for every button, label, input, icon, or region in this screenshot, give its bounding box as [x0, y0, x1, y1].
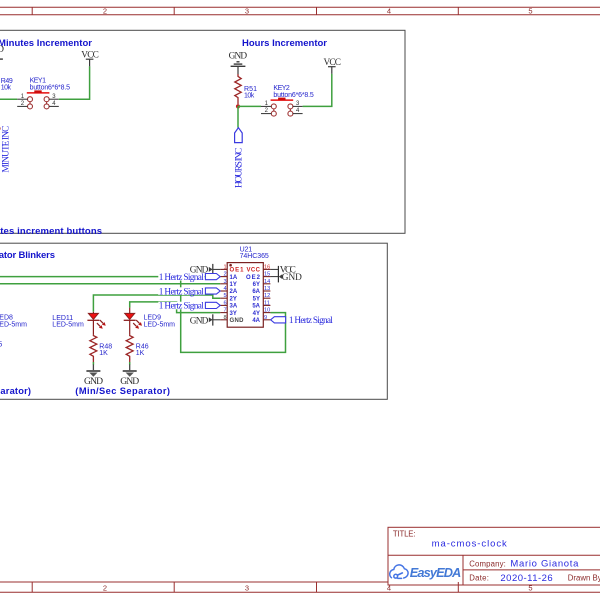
svg-text:1 Hertz Signal: 1 Hertz Signal	[159, 273, 204, 283]
svg-text:2: 2	[103, 584, 107, 593]
svg-text:ma-cmos-clock: ma-cmos-clock	[432, 538, 507, 549]
ground flag at U21 pin8	[190, 314, 220, 326]
svg-text:LED-5mm: LED-5mm	[0, 321, 27, 328]
svg-text:5: 5	[223, 293, 226, 299]
svg-text:2: 2	[103, 6, 107, 15]
wire junction down to HOURS INC flag	[237, 106, 239, 127]
svg-text:10k: 10k	[1, 85, 12, 92]
sheet frame bottom	[0, 582, 600, 592]
svg-text:1: 1	[223, 264, 226, 270]
svg-text:3: 3	[245, 6, 249, 15]
svg-text:Minutes increment buttons: Minutes increment buttons	[0, 226, 102, 237]
svg-text:1K: 1K	[99, 350, 108, 357]
LED9	[124, 308, 175, 335]
svg-text:GND: GND	[190, 317, 209, 327]
svg-text:3: 3	[223, 279, 226, 285]
EasyEDA logo	[390, 565, 462, 580]
power VCC (hours)	[324, 58, 342, 74]
pin numbers right	[264, 264, 270, 320]
ground flag at U21 pin1	[190, 264, 220, 275]
svg-text:3A: 3A	[230, 304, 238, 310]
pin names right	[246, 268, 261, 324]
right pin stubs 16-9	[263, 269, 270, 319]
IC U21 74HC365	[220, 247, 270, 328]
pin names left	[230, 268, 245, 324]
svg-text:5A: 5A	[252, 304, 260, 310]
ground flag at U21 pin15	[270, 272, 302, 283]
svg-text:Date:: Date:	[469, 574, 489, 583]
netflag MINUTE INC (rotated text, flag symbol off-canvas)	[0, 126, 12, 173]
svg-text:6Y: 6Y	[253, 282, 260, 288]
svg-text:5Y: 5Y	[253, 296, 260, 302]
svg-text:MINUTE INC: MINUTE INC	[2, 126, 12, 173]
svg-text:1K: 1K	[136, 350, 145, 357]
title block field labels	[393, 529, 600, 582]
wire (minutes left, to KEY1 pin 1)	[0, 98, 17, 100]
resistor R51	[235, 74, 257, 104]
svg-text:2020-11-26: 2020-11-26	[500, 573, 552, 584]
svg-text:1A: 1A	[230, 275, 238, 281]
svg-text:5: 5	[528, 6, 532, 15]
svg-text:6A: 6A	[252, 289, 260, 295]
left pin stubs 1-8	[220, 269, 227, 319]
svg-text:KEY2: KEY2	[273, 85, 289, 92]
svg-text:3Y: 3Y	[230, 311, 237, 317]
svg-text:74HC365: 74HC365	[240, 253, 269, 260]
ground below R46	[120, 364, 139, 386]
svg-text:7: 7	[223, 308, 226, 314]
sheet frame top	[0, 7, 600, 15]
svg-text:LED9: LED9	[144, 314, 162, 321]
svg-text:3: 3	[245, 584, 249, 593]
svg-text:1 Hertz Signal: 1 Hertz Signal	[159, 302, 204, 312]
wire U21 pin7 to LED9	[130, 302, 221, 313]
svg-text:1 Hertz Signal: 1 Hertz Signal	[159, 287, 204, 297]
section box: increment buttons	[0, 30, 405, 233]
svg-text:Company:: Company:	[469, 559, 506, 568]
svg-text:Drawn By:: Drawn By:	[568, 574, 600, 583]
svg-text:4: 4	[223, 286, 226, 292]
svg-text:TITLE:: TITLE:	[393, 529, 416, 538]
wire KEY2 pin3 to VCC	[303, 74, 332, 107]
svg-text:LED-5mm: LED-5mm	[144, 322, 176, 329]
svg-text:(Hour/Min Separator): (Hour/Min Separator)	[0, 386, 31, 396]
ground (hours)	[229, 52, 248, 74]
svg-text:16: 16	[264, 264, 270, 270]
wire U21 pin10 feedback loop	[181, 277, 286, 353]
title block values	[432, 538, 580, 584]
svg-text:8: 8	[223, 315, 226, 321]
svg-text:GND: GND	[230, 318, 245, 324]
power VCC at U21 pin16	[270, 265, 295, 275]
wire KEY1 pin3 to VCC	[59, 66, 90, 99]
svg-text:EasyEDA: EasyEDA	[410, 565, 462, 580]
ground (minutes, partially cut at left edge)	[0, 45, 4, 59]
junction (hours)	[236, 104, 240, 108]
resistor R49 labels (symbol off-canvas)	[1, 78, 13, 92]
resistor R48	[90, 335, 112, 360]
LED8 labels (symbol off-canvas)	[0, 315, 27, 329]
pin numbers left	[223, 264, 226, 320]
svg-text:14: 14	[264, 279, 270, 285]
svg-text:GND: GND	[0, 45, 4, 55]
svg-text:4A: 4A	[252, 318, 260, 324]
ground below R48	[84, 364, 103, 386]
svg-text:OE2: OE2	[246, 275, 261, 281]
wire U21 pin3 to LED8 (off-canvas)	[0, 283, 220, 285]
svg-text:6: 6	[223, 300, 226, 306]
section box: Separator Blinkers	[0, 243, 387, 399]
pushbutton KEY2	[261, 85, 314, 116]
svg-text:Hours Incrementor: Hours Incrementor	[242, 38, 327, 49]
svg-text:10: 10	[264, 308, 270, 314]
svg-text:Minutes Incrementor: Minutes Incrementor	[0, 38, 92, 49]
svg-text:Mario Gianota: Mario Gianota	[510, 558, 579, 569]
svg-text:12: 12	[264, 293, 270, 299]
wire 1 Hertz net to U21 pin2 flag	[0, 276, 205, 278]
svg-text:13: 13	[264, 286, 270, 292]
svg-text:2A: 2A	[230, 289, 238, 295]
svg-text:1 Hertz Signal: 1 Hertz Signal	[289, 316, 333, 326]
svg-text:2: 2	[223, 272, 226, 278]
netlabel 1 Hertz Signal (pin4)	[158, 287, 220, 297]
title block frame	[388, 527, 600, 585]
pushbutton KEY1	[17, 78, 70, 109]
svg-text:VCC: VCC	[247, 268, 261, 274]
svg-text:R45: R45	[0, 342, 2, 349]
svg-text:(Min/Sec Separator): (Min/Sec Separator)	[75, 386, 170, 396]
svg-text:KEY1: KEY1	[30, 78, 46, 85]
wire R48 to ground	[92, 359, 94, 363]
svg-text:HOURS INC: HOURS INC	[235, 148, 245, 188]
power VCC (minutes)	[81, 51, 99, 67]
netflag HOURS INC	[235, 128, 245, 188]
svg-text:9: 9	[264, 315, 267, 321]
svg-text:15: 15	[264, 272, 270, 278]
svg-text:4Y: 4Y	[253, 311, 260, 317]
svg-text:11: 11	[264, 300, 270, 306]
wire U21 pin5 to LED11	[93, 295, 220, 312]
junction feedback/net	[179, 275, 182, 278]
svg-text:OE1: OE1	[230, 268, 245, 274]
svg-text:4: 4	[387, 6, 391, 15]
wire R46 to ground	[129, 359, 131, 363]
svg-text:1Y: 1Y	[230, 282, 237, 288]
svg-text:2Y: 2Y	[230, 296, 237, 302]
resistor R46	[126, 335, 149, 360]
LED11	[52, 312, 105, 335]
svg-text:GND: GND	[282, 273, 302, 283]
svg-text:Separator Blinkers: Separator Blinkers	[0, 250, 55, 261]
netlabel 1 Hertz Signal (pin2)	[158, 273, 220, 283]
netlabel 1 Hertz Signal (pin9)	[271, 316, 334, 326]
netlabel 1 Hertz Signal (pin6)	[158, 302, 220, 312]
svg-text:LED-5mm: LED-5mm	[52, 322, 84, 329]
wire junction to KEY2 pin1	[238, 105, 261, 107]
svg-text:10k: 10k	[244, 93, 255, 100]
svg-text:GND: GND	[229, 52, 248, 62]
